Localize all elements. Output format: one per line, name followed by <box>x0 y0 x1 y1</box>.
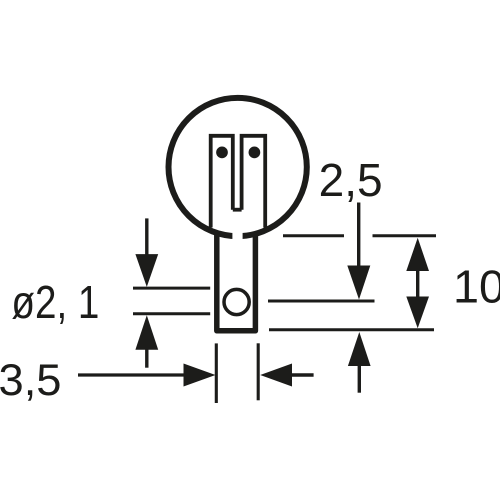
dimension o2,1 up arrowhead <box>135 315 158 350</box>
neck level extension line right piece <box>373 234 437 237</box>
dimension 3,5 right-pointing arrowhead <box>184 364 216 387</box>
hole bottom dimension line <box>133 312 210 315</box>
opposing up arrowhead at stem bottom line <box>348 332 371 366</box>
stem body outline <box>217 234 256 330</box>
stem bottom extension line <box>269 328 434 331</box>
dimension 3,5 line <box>78 373 185 376</box>
dimension 3,5 left-pointing arrow tail <box>290 373 314 376</box>
dimension o2,1 down arrow shaft <box>145 218 148 256</box>
right contact dot <box>249 147 261 159</box>
dimension o2,1 down arrowhead <box>135 254 158 287</box>
dimension 3,5 left-pointing arrowhead <box>260 364 292 387</box>
svg-text:10: 10 <box>453 260 500 312</box>
slot bottom bar <box>233 208 242 212</box>
dimension o2,1 up arrow shaft <box>145 348 148 368</box>
opposing up arrow shaft <box>358 365 361 393</box>
dimension 10 down arrowhead <box>406 297 429 329</box>
right prong rectangle with slot wall <box>242 136 266 228</box>
svg-text:ø2, 1: ø2, 1 <box>11 276 99 328</box>
right stem edge extension line below <box>257 343 260 400</box>
hole top dimension line <box>133 287 210 290</box>
svg-text:2,5: 2,5 <box>319 154 383 206</box>
stem hole circle <box>224 289 249 314</box>
dimension 2,5 leader shaft <box>357 203 360 269</box>
dimension 10 shaft <box>416 269 419 298</box>
left contact dot <box>216 147 228 159</box>
ball head outline circle <box>169 98 307 236</box>
dimension 2,5 down arrowhead <box>347 266 370 300</box>
svg-text:3,5: 3,5 <box>0 356 62 405</box>
dimension 10 up arrowhead <box>406 238 429 271</box>
neck level extension line left piece <box>283 234 344 237</box>
gap in ball outline at slot opening (white eraser) <box>232 230 242 244</box>
left stem edge extension line below <box>215 343 218 403</box>
hole center extension line <box>268 300 375 303</box>
left prong rectangle with slot wall <box>211 136 233 228</box>
